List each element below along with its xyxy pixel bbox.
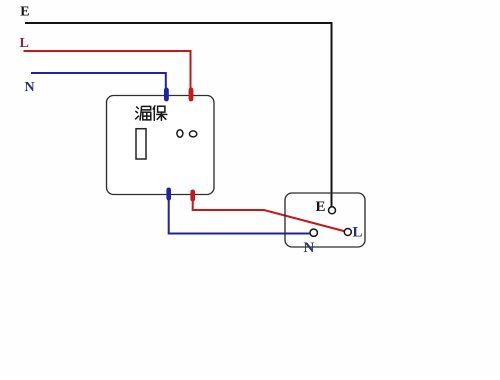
indicator circle 2 inside RCD	[189, 131, 196, 137]
label 漏保 (drawn strokes, char 保)	[153, 105, 168, 121]
terminal blob L output (red, RCD bottom)	[190, 190, 195, 202]
RCD box (leakage protector)	[107, 96, 215, 195]
switch lever rectangle inside RCD	[136, 129, 146, 159]
terminal blob N input (blue, RCD top)	[164, 88, 169, 102]
wire L out (red): RCD bottom to socket L terminal	[193, 196, 346, 232]
socket E terminal circle	[329, 207, 336, 214]
terminal blob N output (blue, RCD bottom)	[166, 188, 171, 201]
terminal blob L input (red, RCD top)	[189, 88, 194, 102]
svg-text:E: E	[20, 5, 29, 20]
svg-text:N: N	[25, 80, 35, 95]
wire N (blue): horizontal from label then down to RCD top	[31, 73, 166, 95]
wire N out (blue): RCD bottom to socket N terminal	[169, 196, 311, 234]
label 漏保 (drawn strokes, char 漏)	[135, 106, 151, 120]
svg-text:L: L	[20, 36, 29, 51]
indicator circle 1 inside RCD	[177, 130, 183, 137]
wire E (black): horizontal from label then down to socket	[25, 23, 332, 207]
svg-text:L: L	[353, 224, 363, 240]
wire L (red): horizontal from label then down to RCD top	[24, 51, 191, 95]
svg-text:N: N	[304, 240, 315, 256]
socket L terminal circle	[344, 229, 351, 236]
socket box	[285, 193, 365, 247]
socket N terminal circle	[310, 229, 317, 236]
svg-text:E: E	[316, 199, 326, 215]
